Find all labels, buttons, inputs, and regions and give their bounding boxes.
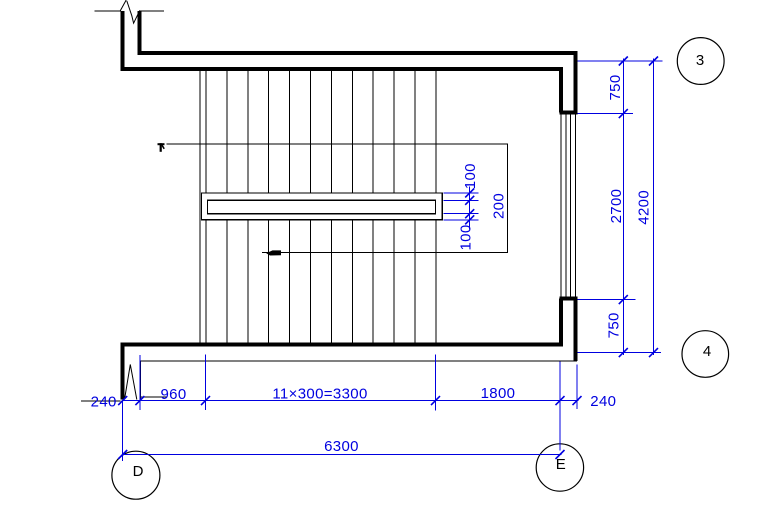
tread line upper flight 11 bbox=[414, 69, 416, 193]
window bottom cap bbox=[559, 297, 577, 301]
tread line upper flight 4 bbox=[268, 69, 270, 193]
bottom-left break mark bbox=[125, 365, 137, 400]
handrail outer rectangle bbox=[202, 193, 443, 220]
svg-text:D: D bbox=[133, 463, 144, 480]
bottom dim row2 line bbox=[123, 454, 562, 456]
handrail inner rectangle bbox=[208, 200, 436, 213]
upper flight treads bbox=[206, 69, 436, 193]
wall right-outer lower bbox=[574, 299, 578, 362]
right ext line axis3 bbox=[578, 60, 663, 62]
handrail ext line 1 bbox=[443, 192, 478, 194]
tick row1 wall inner left bbox=[135, 396, 144, 405]
tread line upper flight 8 bbox=[351, 69, 353, 193]
wall left-outer + top-inner + right-inner upper bbox=[123, 11, 562, 113]
tread line upper flight 7 bbox=[330, 69, 332, 193]
tread line lower flight 6 bbox=[310, 220, 312, 345]
window glazing line 4 bbox=[575, 114, 577, 296]
svg-text:1800: 1800 bbox=[481, 385, 516, 402]
tick window bottom bbox=[619, 295, 628, 304]
bottom ext 139.9 bbox=[139, 355, 141, 410]
tread line lower flight 11 bbox=[414, 220, 416, 345]
direction arrow glyph upper bbox=[158, 143, 165, 152]
bottom ext 122.7 bbox=[122, 401, 124, 461]
top-left break mark B bbox=[127, 1, 140, 23]
window glazing line 3 bbox=[570, 114, 572, 296]
tick row2 right bbox=[556, 450, 565, 459]
tread line upper flight 10 bbox=[393, 69, 395, 193]
direction line upper with box bbox=[166, 144, 507, 253]
tread line upper flight 2 bbox=[226, 69, 228, 193]
direction arrow lower bbox=[266, 250, 281, 255]
right ext line axis4 bbox=[578, 352, 662, 354]
bottom dim row1 line bbox=[123, 400, 579, 402]
tick axis4 at outer dim line bbox=[649, 348, 658, 357]
tick handrail outer bottom bbox=[465, 215, 474, 224]
tick axis3 at inner dim line bbox=[619, 57, 628, 66]
tread line upper flight 9 bbox=[372, 69, 374, 193]
svg-text:4: 4 bbox=[703, 343, 711, 360]
window glazing line 2 bbox=[565, 114, 567, 296]
tread line lower flight 2 bbox=[226, 220, 228, 345]
tick row1 wall inner right bbox=[556, 396, 565, 405]
dimension tick marks bbox=[118, 57, 658, 460]
tread line upper flight 3 bbox=[247, 69, 249, 193]
right dim line outer bbox=[653, 59, 655, 356]
tread line lower flight 3 bbox=[247, 220, 249, 345]
svg-text:E: E bbox=[556, 456, 566, 473]
axis circle 4 bbox=[682, 331, 729, 378]
wall left-inner + top-outer + right-outer upper bbox=[140, 11, 576, 113]
bottom crop line black right bbox=[139, 396, 167, 398]
svg-text:100: 100 bbox=[458, 224, 475, 250]
right dim line inner bbox=[622, 59, 624, 356]
tick row2 left bbox=[118, 450, 127, 459]
bottom ext 205.5 bbox=[205, 354, 207, 410]
svg-text:100: 100 bbox=[462, 163, 479, 189]
tread line upper flight 1 bbox=[205, 69, 207, 193]
tread line lower flight 8 bbox=[351, 220, 353, 345]
svg-text:960: 960 bbox=[160, 386, 186, 403]
tread line lower flight 5 bbox=[289, 220, 291, 345]
tread line upper flight 6 bbox=[310, 69, 312, 193]
top crop line left bbox=[95, 10, 121, 12]
wall thick lines bbox=[123, 11, 578, 400]
svg-text:11×300=3300: 11×300=3300 bbox=[272, 385, 367, 402]
tick axis4 at inner dim line bbox=[619, 348, 628, 357]
svg-text:750: 750 bbox=[606, 312, 623, 338]
axis circle E bbox=[536, 444, 583, 491]
tread line upper flight 12 bbox=[435, 69, 437, 193]
blue dimension lines bbox=[123, 59, 663, 462]
tick row1 wall outer left bbox=[118, 396, 127, 405]
tread line lower flight 9 bbox=[372, 220, 374, 345]
tick window top bbox=[619, 109, 628, 118]
axis circle D bbox=[112, 451, 160, 499]
tread line lower flight 7 bbox=[330, 220, 332, 345]
tick axis3 at outer dim line bbox=[649, 57, 658, 66]
window glazing line 1 bbox=[560, 114, 562, 296]
top-left break mark A bbox=[120, 0, 126, 11]
tread line upper flight 5 bbox=[289, 69, 291, 193]
svg-text:3: 3 bbox=[696, 52, 704, 69]
tread line lower flight 4 bbox=[268, 220, 270, 345]
svg-text:4200: 4200 bbox=[635, 190, 652, 225]
tick handrail outer top bbox=[465, 188, 474, 197]
tick handrail inner bottom bbox=[465, 209, 474, 218]
stair well left edge line bbox=[199, 69, 201, 344]
tick handrail inner top bbox=[465, 196, 474, 205]
tick row1 wall outer right bbox=[573, 396, 582, 405]
svg-text:240: 240 bbox=[590, 393, 616, 410]
handrail ext line 4 bbox=[443, 219, 478, 221]
handrail ext line 2 bbox=[443, 199, 478, 201]
bottom crop line black left bbox=[81, 400, 121, 402]
svg-text:2700: 2700 bbox=[608, 189, 625, 224]
thin black lines bbox=[95, 11, 578, 399]
bottom wall outer thin line bbox=[140, 360, 577, 362]
svg-text:240: 240 bbox=[91, 394, 117, 411]
svg-text:200: 200 bbox=[491, 193, 508, 219]
lower flight treads bbox=[206, 220, 436, 345]
tick row1 stair end bbox=[431, 396, 440, 405]
svg-text:6300: 6300 bbox=[324, 438, 359, 455]
svg-text:750: 750 bbox=[607, 74, 624, 100]
top crop line right bbox=[140, 10, 164, 12]
tread line lower flight 12 bbox=[435, 220, 437, 345]
handrail ext line 3 bbox=[443, 213, 478, 215]
tread line lower flight 10 bbox=[393, 220, 395, 345]
window top cap bbox=[559, 111, 577, 115]
right ext line window top bbox=[578, 113, 634, 115]
axis circle 3 bbox=[677, 38, 724, 85]
tick row1 stair start bbox=[201, 396, 210, 405]
bottom ext 560 bbox=[559, 362, 561, 451]
wall right-inner lower + bottom-inner + left lower stub bbox=[123, 299, 562, 400]
bottom ext 435.5 bbox=[435, 354, 437, 410]
left lower wall inner thin line bbox=[140, 361, 142, 399]
tread line lower flight 1 bbox=[205, 220, 207, 345]
right ext line window bottom bbox=[578, 299, 636, 301]
handrail dim vline bbox=[469, 187, 471, 230]
bottom ext 577 bbox=[576, 365, 578, 410]
